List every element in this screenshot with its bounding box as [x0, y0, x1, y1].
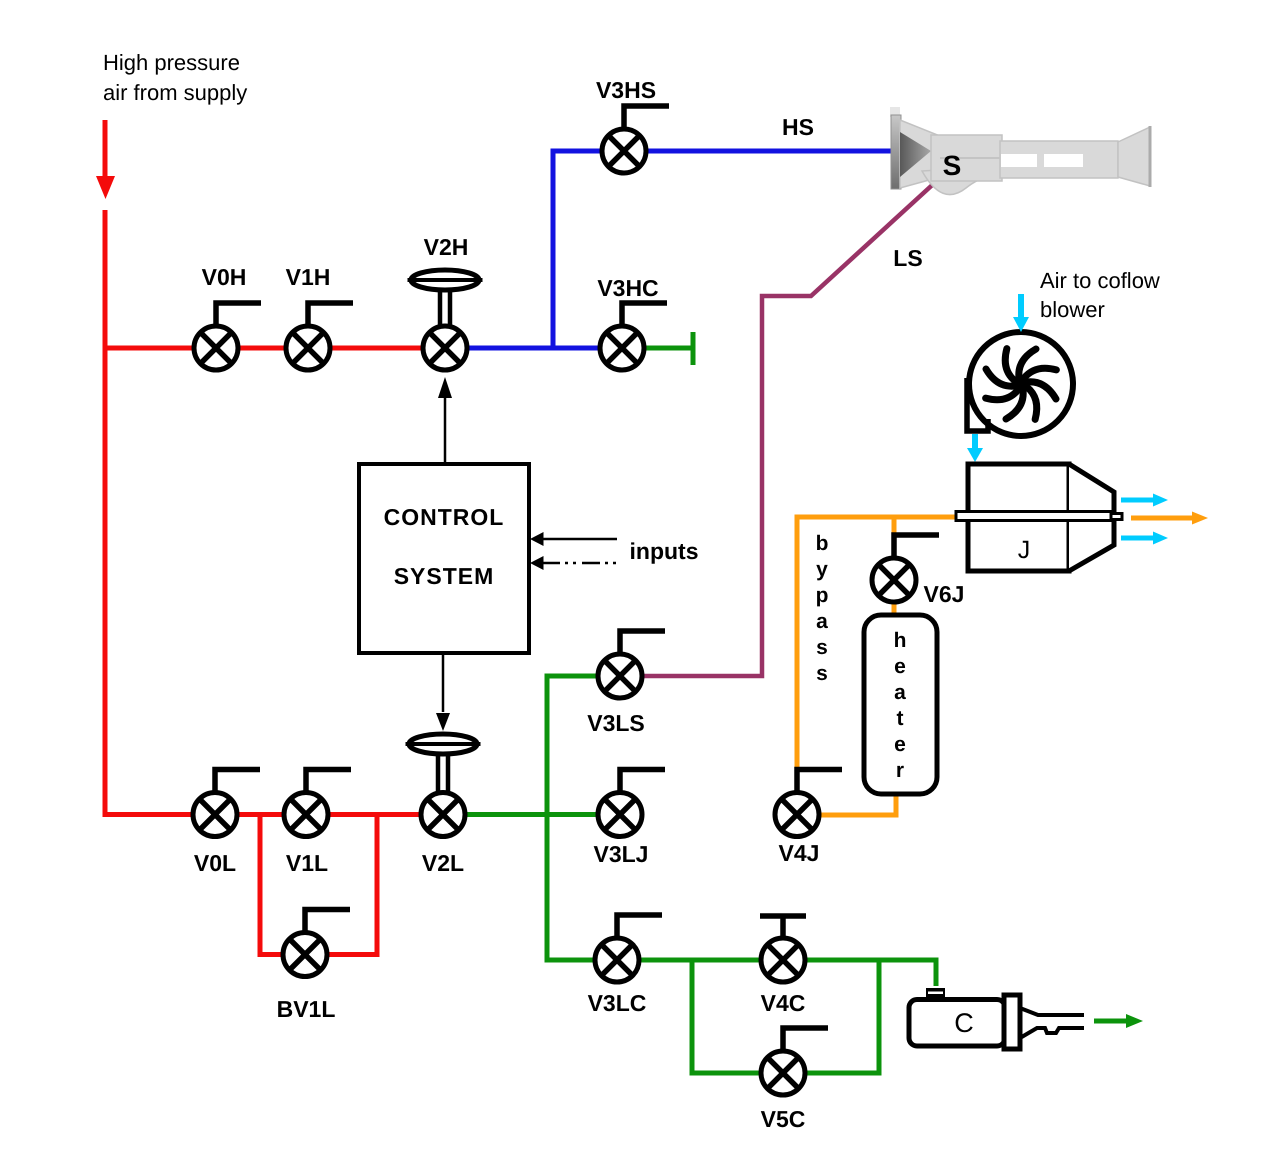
- wire: green out of V3HC: [622, 346, 691, 351]
- wire: top red header to V2H: [103, 346, 446, 351]
- wire: blue HS line to nozzle S: [551, 149, 894, 154]
- svg-text:V1L: V1L: [286, 850, 328, 876]
- svg-text:p: p: [816, 584, 829, 607]
- svg-text:V2L: V2L: [422, 850, 464, 876]
- cyan arrow J out lower: [1121, 536, 1153, 541]
- wire: orange jet outlet line: [1131, 516, 1193, 521]
- svg-text:V4C: V4C: [761, 990, 806, 1016]
- control arrow down to V2L: [442, 652, 445, 712]
- control arrow up to V2H: [444, 396, 447, 464]
- cyan arrow into blower: [1018, 294, 1024, 318]
- valve V5C: [761, 1028, 828, 1095]
- supply arrowhead (red, down): [96, 176, 115, 199]
- svg-text:V6J: V6J: [924, 581, 965, 607]
- valve V1L: [284, 770, 351, 837]
- wire: blue V2H to V3HC: [445, 346, 622, 351]
- wire: orange bypass line to J: [797, 515, 957, 520]
- combustor C end plate: [1004, 995, 1020, 1049]
- nozzle S assembly (gray): [890, 107, 1150, 195]
- wire: purple LS sense line from S to V3LS: [643, 177, 941, 676]
- svg-text:s: s: [816, 636, 828, 659]
- svg-text:SYSTEM: SYSTEM: [394, 563, 495, 589]
- valve V2H: [423, 326, 467, 370]
- combustor C nozzle: [1020, 1008, 1084, 1038]
- orange outlet arrowhead: [1192, 512, 1208, 525]
- valve V3HC: [600, 303, 667, 370]
- svg-text:e: e: [894, 733, 906, 756]
- wire: green stub to V3LS: [545, 674, 621, 679]
- svg-text:b: b: [816, 532, 829, 555]
- wire: green V5C bypass loop: [692, 958, 783, 1074]
- svg-text:s: s: [816, 662, 828, 685]
- valve V0H: [194, 303, 261, 370]
- cyan arrow blower to J: [972, 434, 978, 449]
- wire: high pressure supply vertical (red) upper segment: [103, 120, 108, 178]
- wire: supply vertical lower segment (red): [103, 210, 108, 815]
- svg-text:V3HS: V3HS: [596, 77, 656, 103]
- svg-text:a: a: [816, 610, 828, 633]
- svg-text:V2H: V2H: [424, 234, 469, 260]
- valve BV1L: [283, 910, 350, 977]
- svg-text:r: r: [896, 759, 904, 782]
- svg-text:High pressure: High pressure: [103, 50, 240, 75]
- jet rig J body: [968, 464, 1114, 571]
- valve V3LS: [598, 631, 665, 698]
- wire: orange V6J up to bypass line: [892, 517, 897, 580]
- svg-text:air from supply: air from supply: [103, 80, 247, 105]
- svg-text:Air to coflow: Air to coflow: [1040, 268, 1160, 293]
- terminator tick (green): [691, 332, 696, 365]
- wire: green outlet line from C: [1094, 1019, 1127, 1024]
- fan hub: [1014, 377, 1028, 391]
- wire: green V3LC to V4C: [617, 958, 783, 963]
- svg-text:e: e: [894, 655, 906, 678]
- svg-text:HS: HS: [782, 114, 814, 140]
- svg-text:y: y: [816, 558, 828, 581]
- heater box: [864, 615, 937, 794]
- label bypass (vertical): [816, 532, 829, 685]
- svg-text:V1H: V1H: [286, 264, 331, 290]
- svg-text:inputs: inputs: [630, 538, 699, 564]
- svg-text:V0H: V0H: [202, 264, 247, 290]
- svg-text:C: C: [954, 1008, 974, 1038]
- valve V3HS: [602, 106, 669, 173]
- svg-text:V3LS: V3LS: [587, 710, 645, 736]
- valve V0L: [193, 770, 260, 837]
- J center pipe: [956, 512, 1122, 521]
- combustor C cap: [926, 988, 945, 999]
- svg-text:BV1L: BV1L: [277, 996, 336, 1022]
- inputs arrow 1 (solid): [542, 538, 617, 541]
- wire: green V2L to V3LJ: [443, 812, 620, 817]
- valve V6J: [872, 535, 939, 602]
- svg-text:J: J: [1018, 536, 1031, 564]
- svg-text:V4J: V4J: [779, 840, 820, 866]
- svg-text:a: a: [894, 681, 906, 704]
- svg-text:V0L: V0L: [194, 850, 236, 876]
- wire: BV1L bypass loop (red): [260, 815, 377, 955]
- green outlet arrowhead: [1126, 1014, 1143, 1028]
- wire: blue riser x=553: [551, 151, 556, 351]
- coflow blower fan: [967, 332, 1073, 436]
- fan blades: [986, 349, 1057, 420]
- valve V4J: [775, 770, 842, 837]
- actuator of V2L (ellipse on stem): [406, 734, 481, 791]
- svg-text:S: S: [943, 150, 962, 181]
- valve V3LJ: [598, 770, 665, 837]
- svg-text:V3HC: V3HC: [597, 275, 658, 301]
- actuator of V2H (ellipse on stem): [408, 270, 483, 327]
- label heater (vertical): [894, 629, 907, 782]
- svg-text:LS: LS: [893, 245, 922, 271]
- cyan arrow J out upper: [1121, 498, 1153, 503]
- valve V2L: [421, 793, 465, 837]
- wire: bottom red header to V2L: [103, 812, 444, 817]
- valve V1H: [286, 303, 353, 370]
- wire: orange bypass riser x=797: [795, 515, 800, 769]
- combustor C body: [909, 1000, 1005, 1047]
- svg-text:blower: blower: [1040, 297, 1105, 322]
- svg-text:t: t: [897, 707, 904, 730]
- valve V3LC: [595, 915, 662, 982]
- wire: green V4C to C elbow: [783, 960, 936, 986]
- svg-text:h: h: [894, 629, 907, 652]
- wire: green riser x=547 V3LS to V3LC: [545, 676, 550, 960]
- svg-text:CONTROL: CONTROL: [384, 504, 505, 530]
- inputs arrow 2 (dash-dot-dot): [542, 562, 617, 565]
- control system box: [359, 464, 529, 653]
- wire: orange heater top to V6J: [892, 580, 897, 615]
- wire: orange V4J to heater bottom: [797, 794, 896, 815]
- wire: green V5C out to rejoin: [783, 958, 879, 1074]
- svg-text:V3LJ: V3LJ: [594, 841, 649, 867]
- wire: green stub to V3LC: [545, 958, 618, 963]
- svg-text:V3LC: V3LC: [588, 990, 647, 1016]
- svg-text:V5C: V5C: [761, 1106, 806, 1132]
- valve V4C: [760, 916, 806, 982]
